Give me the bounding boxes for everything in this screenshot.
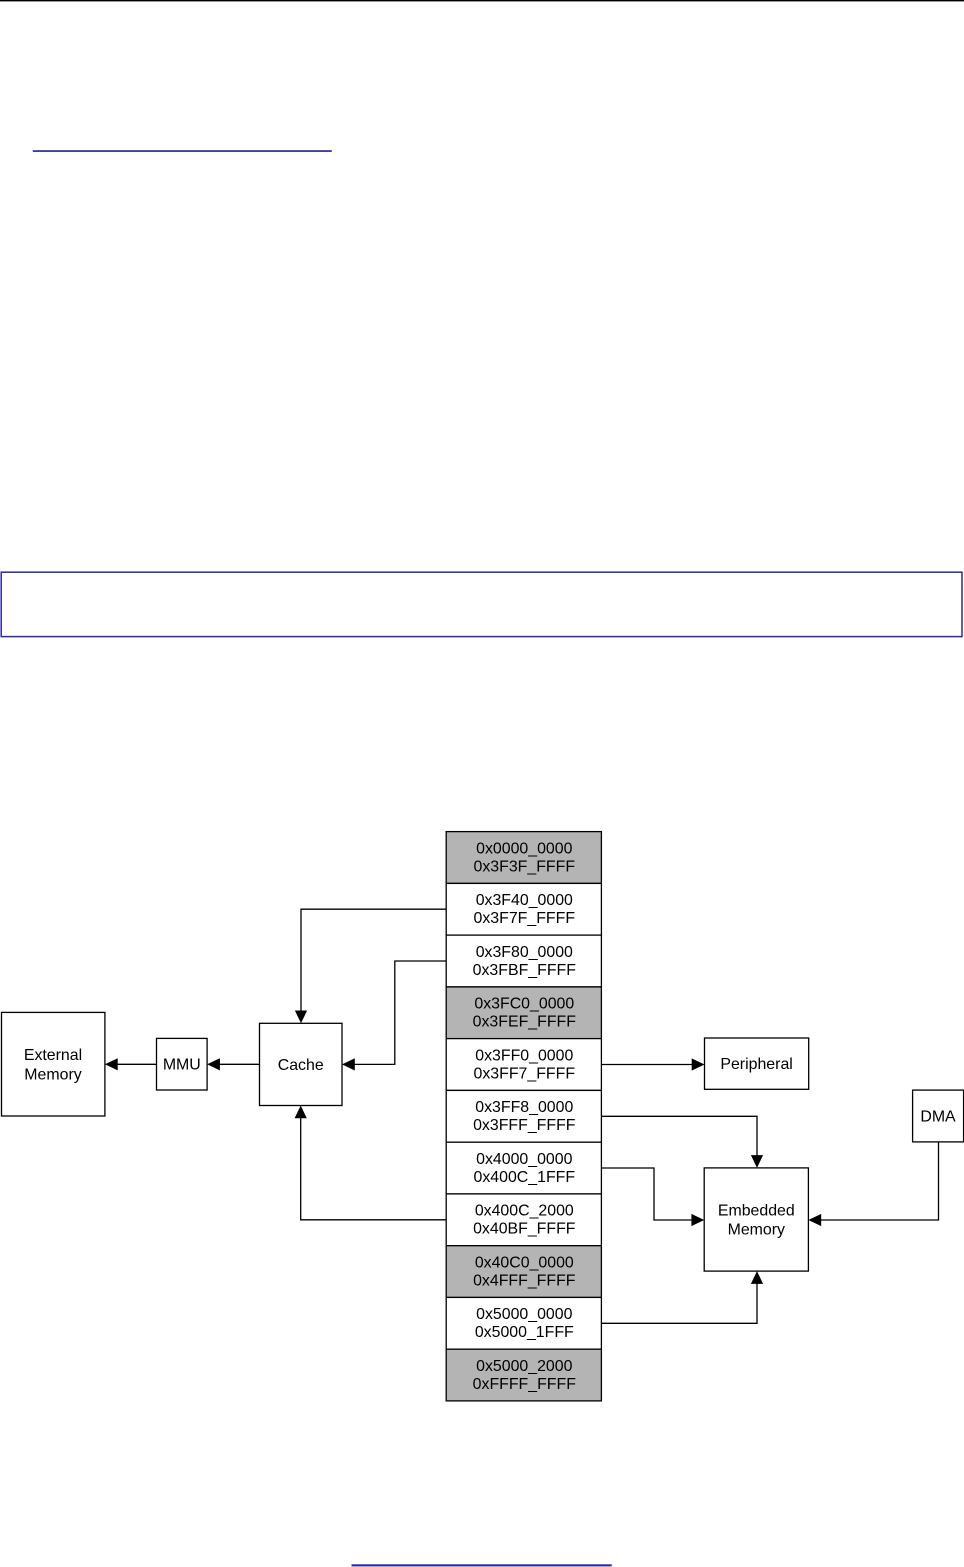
memory region row 1: 0x0000_0000-0x3F3F_FFFF (shaded) [446,832,601,884]
svg-text:0x3FF0_0000: 0x3FF0_0000 [475,1047,573,1064]
memory region row 6: 0x3FF8_0000-0x3FFF_FFFF [446,1090,601,1142]
memory region row 2: 0x3F40_0000-0x3F7F_FFFF [446,883,601,935]
svg-text:0x3FF7_FFFF: 0x3FF7_FFFF [474,1065,576,1082]
wire row2 region to Cache top [295,909,446,1023]
memory region row 4: 0x3FC0_0000-0x3FEF_FFFF (shaded) [446,987,601,1039]
note box [1,572,962,636]
block Embedded Memory [704,1168,808,1271]
wire row3 region to Cache right [342,961,446,1071]
bottom link underline [352,1564,612,1566]
memory region row 5: 0x3FF0_0000-0x3FF7_FFFF [446,1039,601,1091]
svg-text:0x0000_0000: 0x0000_0000 [476,840,572,857]
svg-text:Cache: Cache [278,1057,324,1074]
svg-text:0x40C0_0000: 0x40C0_0000 [475,1254,574,1271]
svg-text:0x4FFF_FFFF: 0x4FFF_FFFF [473,1272,576,1289]
svg-text:0xFFFF_FFFF: 0xFFFF_FFFF [473,1376,577,1393]
block MMU [157,1038,208,1090]
wire DMA to Embedded Memory right [808,1142,938,1226]
block External Memory [2,1012,105,1116]
svg-text:0x3F80_0000: 0x3F80_0000 [476,944,573,961]
svg-text:0x3F3F_FFFF: 0x3F3F_FFFF [474,858,576,875]
wire row5 region to Peripheral [601,1058,704,1070]
svg-text:Memory: Memory [24,1066,81,1083]
svg-text:DMA: DMA [920,1108,956,1125]
svg-text:External: External [24,1047,82,1064]
wire MMU to External Memory [105,1058,157,1070]
svg-text:0x5000_0000: 0x5000_0000 [476,1306,572,1323]
svg-text:0x3F40_0000: 0x3F40_0000 [476,892,573,909]
memory region row 3: 0x3F80_0000-0x3FBF_FFFF [446,935,601,987]
svg-text:0x5000_1FFF: 0x5000_1FFF [475,1324,574,1341]
svg-text:0x3FBF_FFFF: 0x3FBF_FFFF [473,962,577,979]
svg-text:0x400C_2000: 0x400C_2000 [475,1203,574,1220]
block Cache [260,1023,343,1105]
wire row6 region to Embedded Memory top [601,1116,763,1168]
memory region row 10: 0x5000_0000-0x5000_1FFF [446,1297,601,1349]
svg-text:0x3FF8_0000: 0x3FF8_0000 [475,1099,573,1116]
svg-text:0x3FEF_FFFF: 0x3FEF_FFFF [473,1014,577,1031]
memory region row 7: 0x4000_0000-0x400C_1FFF [446,1142,601,1194]
memory region row 11: 0x5000_2000-0xFFFF_FFFF (shaded) [446,1349,601,1401]
memory region row 8: 0x400C_2000-0x40BF_FFFF [446,1194,601,1246]
svg-text:MMU: MMU [163,1057,201,1074]
wire row8 region to Cache bottom [295,1106,447,1220]
svg-text:0x3FC0_0000: 0x3FC0_0000 [474,996,574,1013]
top link underline [33,150,332,152]
svg-text:0x40BF_FFFF: 0x40BF_FFFF [473,1221,576,1238]
svg-text:0x400C_1FFF: 0x400C_1FFF [474,1169,576,1186]
memory region row 9: 0x40C0_0000-0x4FFF_FFFF (shaded) [446,1246,601,1298]
top page rule [0,0,964,1]
svg-text:0x3F7F_FFFF: 0x3F7F_FFFF [474,910,576,927]
wire row10 region to Embedded Memory bottom [601,1271,763,1323]
svg-text:0x5000_2000: 0x5000_2000 [476,1358,572,1375]
svg-text:0x4000_0000: 0x4000_0000 [476,1151,572,1168]
svg-text:Memory: Memory [728,1222,785,1239]
svg-text:Embedded: Embedded [718,1202,795,1219]
svg-text:Peripheral: Peripheral [720,1056,792,1073]
wire row7 region to Embedded Memory left [601,1168,704,1226]
block Peripheral [705,1038,809,1089]
svg-text:0x3FFF_FFFF: 0x3FFF_FFFF [473,1117,576,1134]
wire Cache to MMU [207,1058,259,1070]
block DMA [913,1090,964,1142]
